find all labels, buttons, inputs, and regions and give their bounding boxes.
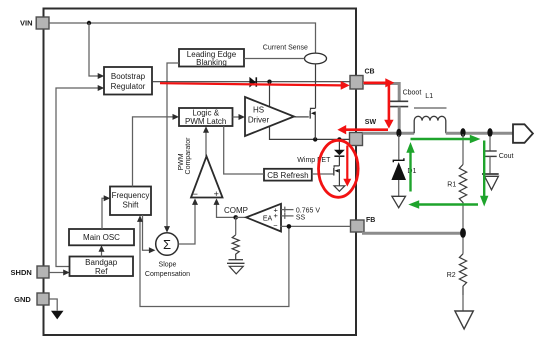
label COMP <box>224 206 248 215</box>
label SS <box>296 214 306 221</box>
svg-text:Cout: Cout <box>499 153 514 160</box>
svg-text:−: − <box>273 221 278 230</box>
node Cout junction <box>487 128 492 137</box>
svg-text:EA: EA <box>263 215 273 222</box>
label Cout <box>499 153 514 160</box>
wire VIN to current sense <box>49 23 316 53</box>
block Bandgap Ref <box>70 257 134 277</box>
diode bootstrap (on CB wire) <box>249 77 256 88</box>
ground COMP compensation <box>229 266 243 274</box>
label 0.765 V <box>296 207 320 214</box>
wire SW external right segment <box>446 132 513 135</box>
svg-text:Frequency: Frequency <box>112 191 150 200</box>
wire current sense to LEB <box>244 58 305 60</box>
svg-text:SHDN: SHDN <box>11 268 32 277</box>
svg-text:CB Refresh: CB Refresh <box>267 171 308 180</box>
ground D1 <box>392 196 406 207</box>
ground at GND pin (filled) <box>51 311 64 320</box>
wire HS driver bottom to SW <box>270 126 350 139</box>
wire Cout top <box>489 136 491 151</box>
label D1 <box>407 168 416 175</box>
block CB Refresh <box>264 169 312 181</box>
output connector <box>513 124 533 143</box>
svg-text:Cboot: Cboot <box>403 89 422 96</box>
svg-text:CB: CB <box>365 69 375 76</box>
svg-text:SW: SW <box>365 119 377 126</box>
current sense ellipse <box>305 53 327 64</box>
wire main osc to frequency shift <box>102 195 110 229</box>
svg-text:COMP: COMP <box>224 206 248 215</box>
capacitor Cboot <box>390 101 408 133</box>
wire R1 top <box>462 134 464 165</box>
node R1 junction <box>460 128 465 137</box>
svg-text:Comparator: Comparator <box>185 137 192 175</box>
ground R2 <box>455 311 473 329</box>
node FB divider junction <box>460 228 466 238</box>
svg-text:Compensation: Compensation <box>145 271 190 278</box>
red arrow SW into chip <box>337 125 388 134</box>
label L1 <box>425 93 433 100</box>
wire EA ref input 0.765V <box>281 207 294 213</box>
wire EA minus to FB pad <box>281 225 351 227</box>
resistor R1 <box>459 165 466 204</box>
svg-text:R2: R2 <box>447 272 456 279</box>
wire LEB to slope comp <box>164 63 179 233</box>
wire current sense to main FET drain <box>315 64 317 109</box>
wire PWM comparator to latch <box>203 126 209 156</box>
wire R2 top <box>462 238 464 254</box>
svg-text:GND: GND <box>14 295 31 304</box>
block Main OSC <box>69 229 134 245</box>
svg-text:Current Sense: Current Sense <box>263 45 308 52</box>
svg-text:−: − <box>193 189 198 199</box>
svg-text:Slope: Slope <box>159 262 177 269</box>
diode wimp FET body <box>334 150 345 166</box>
wire COMP to PWM comparator plus <box>214 198 236 217</box>
wire frequency shift to latch <box>133 114 180 187</box>
node VIN junction <box>87 21 91 25</box>
label Cboot <box>403 89 422 96</box>
label PWM Comparator (rotated) <box>178 137 192 175</box>
svg-text:R1: R1 <box>447 182 456 189</box>
svg-text:SS: SS <box>296 214 306 221</box>
wire VIN branch to bootstrap input 1 <box>89 23 104 79</box>
ground wimp FET <box>334 186 345 192</box>
svg-text:D1: D1 <box>407 168 416 175</box>
wire COMP to EA output <box>236 216 247 218</box>
block Logic & PWM Latch <box>179 108 233 126</box>
node CB supply junction <box>267 80 271 84</box>
green arrow to Cout right <box>411 135 481 144</box>
wire FB sense loop to frequency shift <box>137 215 289 306</box>
pin SHDN <box>11 266 49 278</box>
svg-text:+: + <box>214 189 219 199</box>
wire CB pad to Cboot <box>363 84 399 102</box>
red arrow CB pad to Cboot <box>364 78 395 87</box>
summing node slope compensation <box>156 233 179 256</box>
IC boundary box <box>44 9 357 336</box>
svg-text:Driver: Driver <box>248 115 270 124</box>
transistor main FET <box>310 108 315 139</box>
label Slope Compensation <box>145 262 190 278</box>
wire SHDN to bandgap <box>49 270 70 276</box>
block Leading Edge Blanking <box>179 49 244 67</box>
label R1 <box>447 182 456 189</box>
node SW-Cboot junction <box>396 129 401 137</box>
pin CB <box>350 69 375 90</box>
svg-text:Wimp FET: Wimp FET <box>297 157 331 164</box>
svg-text:PWM Latch: PWM Latch <box>185 117 226 126</box>
wire R1 bottom to FB node <box>462 203 464 233</box>
svg-text:Bootstrap: Bootstrap <box>111 72 146 81</box>
green arrow bottom left to D1 <box>408 200 478 208</box>
wire SW to D1 <box>398 135 400 160</box>
svg-text:Ref: Ref <box>95 267 108 276</box>
wire R2 bottom <box>462 295 464 311</box>
ground Cout <box>482 174 499 190</box>
svg-text:Bandgap: Bandgap <box>85 258 118 267</box>
svg-text:Shift: Shift <box>122 201 139 210</box>
op-amp HS Driver <box>245 97 294 136</box>
red ellipse highlight wimp FET <box>319 140 359 197</box>
pin FB <box>351 217 376 232</box>
svg-text:PWM: PWM <box>178 153 185 170</box>
capacitor Cout <box>483 151 496 173</box>
svg-text:Σ: Σ <box>163 237 171 252</box>
svg-text:HS: HS <box>253 106 264 115</box>
svg-text:+: + <box>274 211 279 220</box>
inductor L1 <box>414 108 447 133</box>
wire latch to CB refresh <box>224 126 264 174</box>
svg-text:FB: FB <box>366 217 375 224</box>
wire EA SS input <box>281 213 294 219</box>
wire SW to wimp FET body diode <box>338 139 340 150</box>
resistor COMP compensation <box>232 235 239 260</box>
block Frequency Shift <box>110 187 151 216</box>
wire HS driver to main FET gate <box>294 116 309 118</box>
wire GND to ground <box>49 299 57 311</box>
wire COMP to compensation RC <box>235 217 237 234</box>
node wimp FET junction on SW <box>337 137 341 141</box>
wire bandgap to bootstrap input 2 <box>56 85 104 267</box>
op-amp EA error amplifier <box>246 204 281 232</box>
svg-text:0.765 V: 0.765 V <box>296 207 320 214</box>
red arrow down to SW wire <box>384 84 393 129</box>
label Wimp FET <box>297 157 331 164</box>
wire FB external <box>362 232 461 235</box>
wire CB supply to HS driver top <box>269 82 271 107</box>
red arrow bootstrap to CB <box>160 81 350 90</box>
transistor wimp FET <box>334 166 340 186</box>
node FB sense junction <box>287 224 292 229</box>
diode D1 schottky <box>391 158 406 196</box>
pin GND <box>14 293 49 305</box>
node main FET source junction <box>313 137 317 141</box>
wire SW external left segment <box>363 132 415 135</box>
wire slope comp to PWM comparator minus <box>178 198 198 244</box>
node COMP junction <box>233 215 238 220</box>
label R2 <box>447 272 456 279</box>
wire CB refresh to wimp FET gate <box>312 173 334 175</box>
block Bootstrap Regulator <box>104 67 152 95</box>
svg-text:VIN: VIN <box>20 19 33 28</box>
pin SW <box>350 119 377 146</box>
wire frequency shift to slope comp <box>143 215 156 253</box>
svg-text:L1: L1 <box>425 93 433 100</box>
resistor R2 <box>459 254 466 295</box>
label Current Sense <box>263 45 308 52</box>
wire bandgap to main osc <box>99 245 105 256</box>
comparator PWM triangle <box>191 156 223 199</box>
bootstrap output wire to CB pad <box>152 81 350 83</box>
svg-text:Blanking: Blanking <box>196 58 227 67</box>
svg-text:Main OSC: Main OSC <box>83 233 120 242</box>
pin VIN <box>20 17 49 29</box>
green arrow D1 up <box>406 142 414 192</box>
red arrow through wimp FET <box>343 146 351 187</box>
wire latch to HS driver <box>233 114 246 120</box>
green arrow Cout down <box>480 141 488 207</box>
capacitor COMP compensation <box>227 260 245 264</box>
svg-text:Regulator: Regulator <box>111 82 146 91</box>
